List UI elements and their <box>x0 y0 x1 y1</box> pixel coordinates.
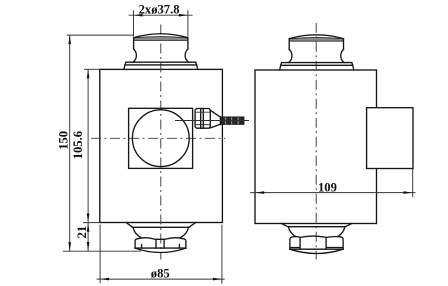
load button cylinder side <box>289 39 343 49</box>
body outline front view <box>100 69 223 222</box>
cable gland chamfer ticks <box>196 112 210 124</box>
dimension 21 arrows <box>87 223 90 232</box>
bottom neck side <box>288 227 345 237</box>
hex nut side view <box>290 236 343 249</box>
dimension 109 arrows <box>255 191 264 194</box>
hex nut side bottom line <box>290 248 343 250</box>
cable braid gaps <box>226 117 239 124</box>
bottom flange side <box>281 224 351 227</box>
hex nut side facet lines <box>291 237 342 249</box>
dimension 2x(dia)37.8 line <box>129 14 193 16</box>
svg-text:ø85: ø85 <box>151 266 170 280</box>
load button neck side <box>289 49 345 62</box>
svg-text:105.6: 105.6 <box>71 131 85 159</box>
hex nut front bottom line <box>135 247 186 249</box>
dimension dia85 line <box>97 278 225 280</box>
dimension 105.6 / 21 shared line <box>87 69 89 251</box>
load button dome side (gray lens) <box>289 37 343 41</box>
dimension 105.6 arrows <box>87 69 90 78</box>
gauge pocket square plate <box>129 108 193 168</box>
svg-text:109: 109 <box>318 181 337 195</box>
hex nut front facet lines <box>142 239 180 248</box>
body outline side view <box>255 70 377 224</box>
svg-text:150: 150 <box>57 131 71 150</box>
load button dome side top arc <box>289 35 343 39</box>
bottom flange front <box>126 223 196 228</box>
cable gland ring lines <box>201 109 204 129</box>
load button flange side <box>280 63 354 70</box>
dimension 150 extension bottom <box>63 250 141 252</box>
dimension 109 extension below box <box>412 169 414 198</box>
dimension 2x(dia)37.8 arrows <box>134 14 143 17</box>
dimension 2x(dia)37.8 extension lines <box>134 10 188 36</box>
load button dome top arc <box>134 34 188 38</box>
vertical centerline right view <box>315 23 317 260</box>
dimension dia85 extension lines <box>100 225 222 284</box>
gland axis line <box>175 120 249 122</box>
dimension 150 line <box>69 35 71 251</box>
dimension 150 extension top <box>67 34 134 36</box>
hex nut front view <box>135 238 186 248</box>
dimension 109 line <box>250 192 415 194</box>
load button flange <box>124 62 198 69</box>
svg-text:21: 21 <box>75 226 89 239</box>
svg-text:2xø37.8: 2xø37.8 <box>139 3 180 17</box>
hex nut side bottom arc <box>290 249 343 253</box>
extension at body bottom left <box>83 222 100 224</box>
horizontal centerline left view <box>91 137 225 139</box>
cable (dark) <box>221 117 245 125</box>
cable gland body <box>195 109 210 129</box>
dimension dia85 arrows <box>100 278 109 281</box>
load button cylinder <box>134 39 188 49</box>
dimension 105.6 extension top <box>84 68 100 70</box>
junction box on side <box>367 108 413 169</box>
load button neck <box>133 49 189 62</box>
diaphragm circle <box>132 110 189 167</box>
load button dome (gray lens) <box>134 37 188 41</box>
dimension 150 arrows <box>68 35 71 44</box>
cable gland taper <box>210 110 220 128</box>
hex nut front bottom arc <box>135 248 186 252</box>
bottom neck front <box>133 227 189 237</box>
vertical centerline left view <box>160 25 162 260</box>
